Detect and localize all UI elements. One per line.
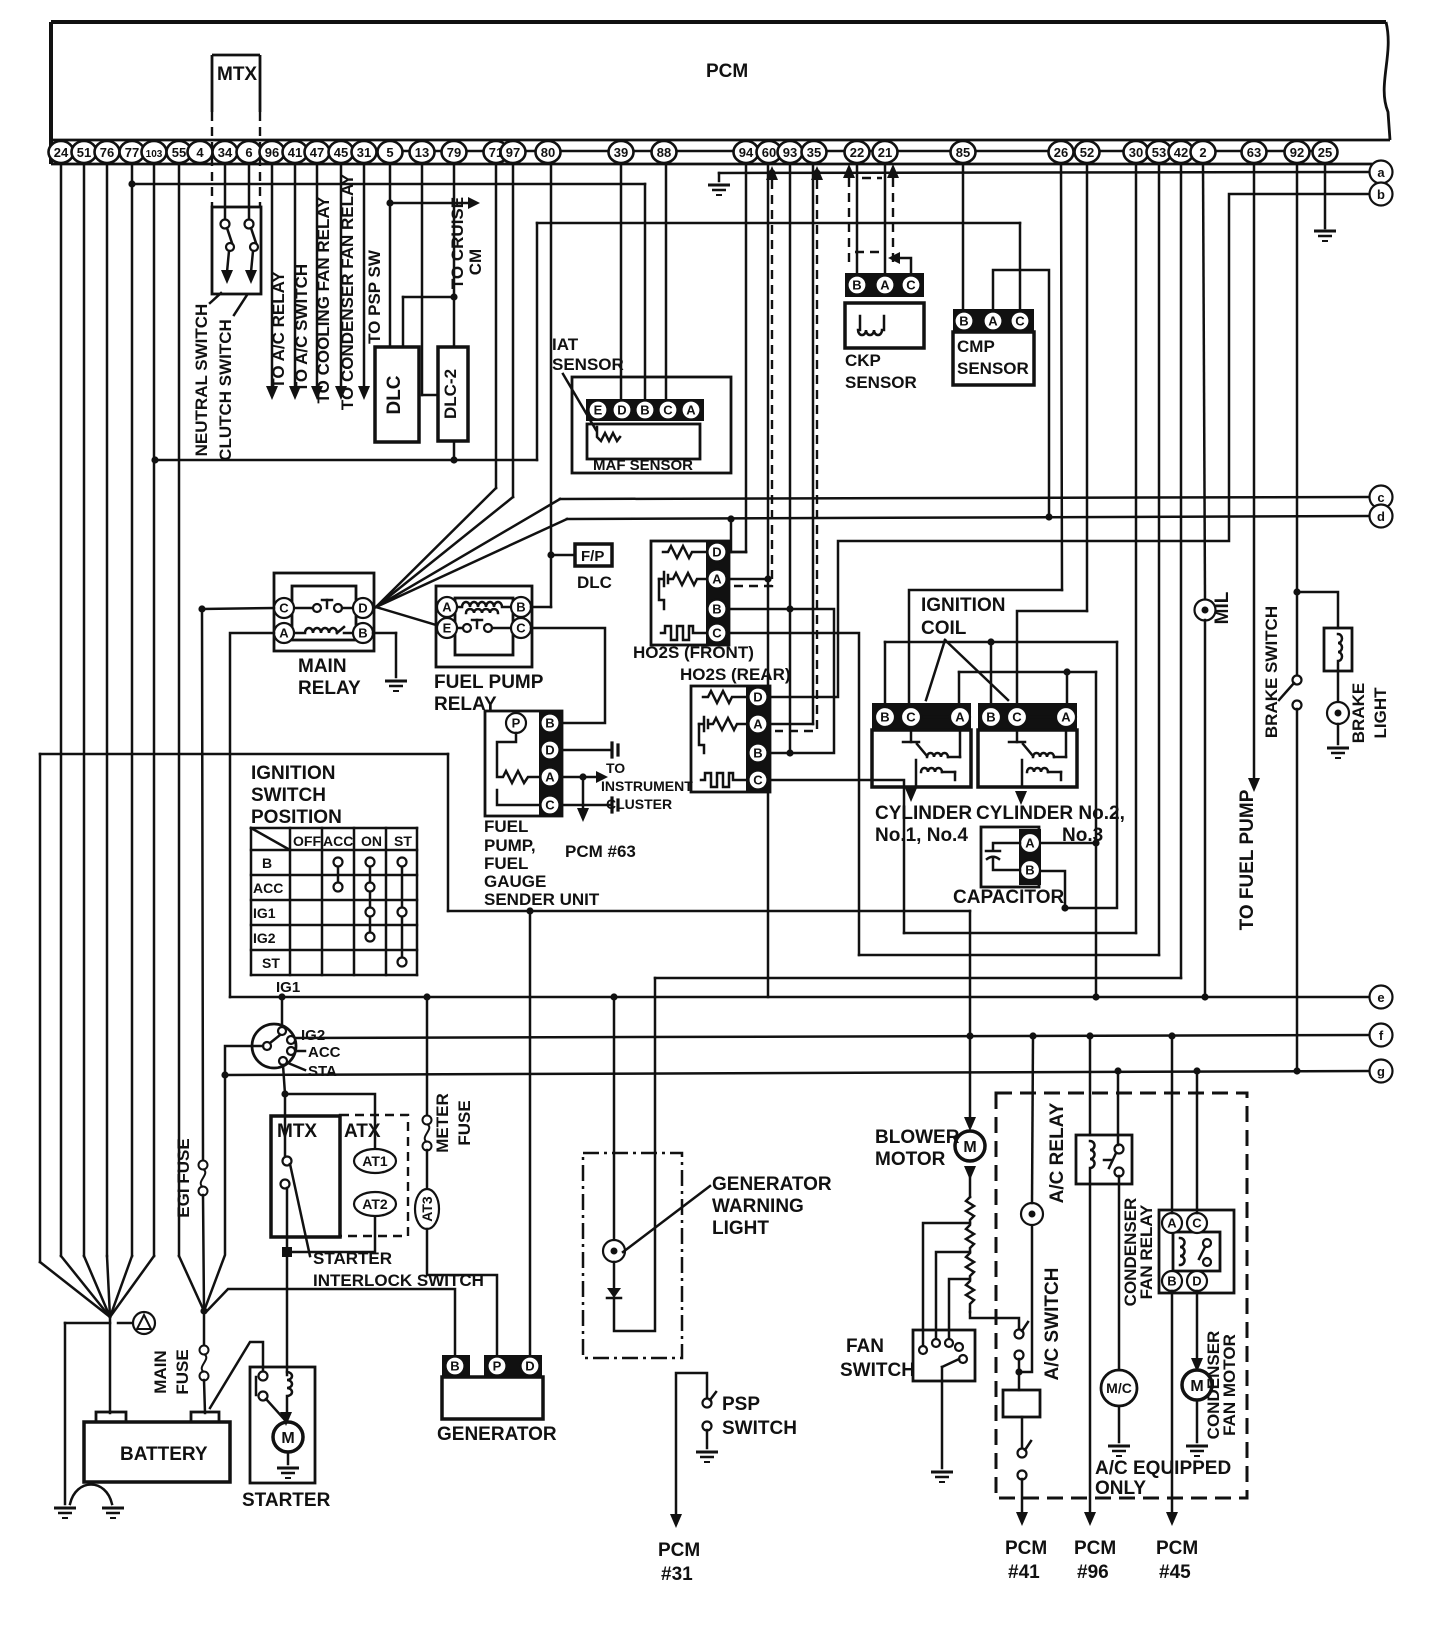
- svg-text:STARTER: STARTER: [242, 1490, 331, 1511]
- wire rail g STA: [225, 1071, 1369, 1075]
- HO2S rear connector band: [746, 686, 770, 792]
- ignition switch: [252, 1024, 296, 1068]
- svg-text:AT2: AT2: [362, 1196, 388, 1212]
- IAT leader: [563, 374, 596, 430]
- svg-text:D: D: [712, 545, 721, 560]
- MAF pin E: [589, 401, 608, 420]
- CKP pin C: [902, 276, 921, 295]
- generator warning bulb: [603, 1240, 625, 1262]
- wire pin wire x=317: [316, 164, 319, 388]
- svg-text:A: A: [1025, 836, 1035, 851]
- wire diode loop: [614, 978, 655, 1331]
- PCM pin 88: [652, 141, 677, 163]
- wire ac relay contact riser: [1117, 1071, 1120, 1145]
- junction rear B tap: [786, 749, 793, 756]
- thermo box: [1003, 1390, 1040, 1417]
- condenser fan relay box: [1159, 1210, 1234, 1293]
- PCM31 arrow: [670, 1514, 682, 1528]
- svg-text:B: B: [852, 278, 861, 293]
- junction IG1 tap: [278, 993, 285, 1000]
- HO2S rear pin C: [749, 771, 768, 790]
- wire pin93 wire: [789, 164, 792, 753]
- svg-text:A: A: [686, 403, 696, 418]
- HO2S rear A shield: [775, 180, 817, 731]
- svg-text:ACC: ACC: [308, 1044, 341, 1061]
- MAF connector band: [586, 399, 704, 421]
- MTX box at PCM top: [212, 55, 260, 207]
- fuel pump relay pin E: [437, 618, 457, 638]
- wire pcm45 wire: [1171, 1291, 1174, 1514]
- coil 1 internals: [903, 730, 960, 787]
- svg-text:22: 22: [850, 145, 864, 160]
- ignition coil unit 1 connector: [872, 703, 971, 730]
- neutral switch: [221, 220, 235, 273]
- ground strap ground: [102, 1508, 124, 1518]
- svg-text:C: C: [753, 773, 763, 788]
- svg-text:SENDER UNIT: SENDER UNIT: [484, 890, 600, 909]
- junction ac relay f tap: [1086, 1032, 1093, 1039]
- fuel pump relay coil: [457, 602, 511, 613]
- wire pin71 wire: [495, 164, 498, 488]
- svg-text:A: A: [1061, 710, 1071, 725]
- svg-text:FUEL PUMP: FUEL PUMP: [434, 672, 544, 693]
- svg-text:DLC: DLC: [577, 573, 612, 592]
- pcm41 arrow: [1016, 1512, 1028, 1526]
- wire generator B feed: [206, 1289, 455, 1355]
- ground pin25 ground: [1314, 231, 1336, 241]
- svg-text:PUMP,: PUMP,: [484, 836, 536, 855]
- svg-text:FAN MOTOR: FAN MOTOR: [1220, 1334, 1239, 1436]
- wire FP relay B out: [531, 606, 551, 609]
- wire pin35 wire: [812, 164, 815, 724]
- wire PCM63 drop: [582, 777, 585, 810]
- HO2S front connector band: [706, 541, 729, 645]
- CMP pin B: [955, 312, 974, 331]
- wire blower to resistors: [969, 1172, 972, 1197]
- svg-text:IG2: IG2: [253, 930, 276, 946]
- svg-text:PCM: PCM: [706, 61, 748, 82]
- svg-text:30: 30: [1129, 145, 1143, 160]
- svg-text:TO FUEL PUMP: TO FUEL PUMP: [1237, 789, 1258, 930]
- PCM pin 94: [734, 141, 759, 163]
- MIL bulb: [1195, 600, 1216, 621]
- svg-text:C: C: [1192, 1216, 1202, 1231]
- svg-text:CYLINDER No.2,: CYLINDER No.2,: [976, 803, 1125, 824]
- junction blower f tap: [966, 1032, 973, 1039]
- wire pressure link: [1019, 1226, 1032, 1372]
- wire pin92 wire upper: [1296, 164, 1299, 676]
- svg-text:SWITCH: SWITCH: [251, 785, 326, 806]
- wire cruise line: [390, 202, 470, 205]
- wire main relay C feed: [202, 608, 274, 609]
- svg-text:31: 31: [357, 145, 371, 160]
- svg-text:IAT: IAT: [552, 335, 579, 354]
- terminal d: [1370, 505, 1393, 528]
- PCM pin 80: [536, 141, 561, 163]
- ground main relay ground: [385, 681, 407, 691]
- svg-text:63: 63: [1247, 145, 1261, 160]
- wire A rail to cap: [1095, 672, 1098, 843]
- wire battery neg lead: [109, 1317, 112, 1413]
- svg-text:92: 92: [1290, 145, 1304, 160]
- DLC connector: [375, 347, 419, 442]
- svg-text:M: M: [1190, 1378, 1203, 1395]
- wire A1 riser: [958, 672, 961, 703]
- MAF pin B: [636, 401, 655, 420]
- wire DLC-2 bottom lead: [453, 441, 456, 460]
- PCM pin 53: [1147, 141, 1172, 163]
- HO2S rear box: [691, 686, 770, 792]
- svg-text:COIL: COIL: [921, 618, 967, 639]
- starter motor: [273, 1422, 303, 1452]
- svg-text:A/C EQUIPPED: A/C EQUIPPED: [1095, 1458, 1231, 1479]
- svg-text:A/C SWITCH: A/C SWITCH: [1042, 1268, 1063, 1381]
- wire pin55 wire: [178, 164, 181, 1256]
- wire mc gnd lead: [1118, 1406, 1121, 1442]
- PCM63 arrow: [577, 808, 589, 822]
- wire cond motor wire: [1196, 1291, 1199, 1363]
- svg-text:ST: ST: [394, 833, 412, 849]
- wire pin 24 fan diagonal: [61, 1256, 110, 1317]
- svg-text:PCM: PCM: [1156, 1538, 1198, 1559]
- PCM pin 96: [260, 141, 285, 163]
- svg-text:PCM: PCM: [1005, 1538, 1047, 1559]
- svg-text:SENSOR: SENSOR: [845, 373, 917, 392]
- svg-text:85: 85: [956, 145, 970, 160]
- svg-text:a: a: [1377, 165, 1385, 180]
- svg-text:FUSE: FUSE: [173, 1349, 192, 1394]
- arrow x=341: [335, 386, 347, 400]
- wire main fuse to battery: [204, 1380, 205, 1413]
- wire B1 riser: [884, 642, 887, 703]
- svg-text:C: C: [712, 626, 722, 641]
- wire pin 76 fan diagonal: [107, 1256, 110, 1317]
- svg-text:MIL: MIL: [1212, 591, 1233, 624]
- junction brake g tap: [1293, 1067, 1300, 1074]
- noise suppressor: [118, 1312, 155, 1334]
- HO2S rear pin B: [749, 744, 768, 763]
- svg-text:FAN: FAN: [846, 1336, 884, 1357]
- cond motor arrow: [1191, 1358, 1203, 1372]
- svg-text:A: A: [988, 314, 998, 329]
- pcm45 arrow: [1166, 1512, 1178, 1526]
- svg-text:AT3: AT3: [419, 1196, 435, 1222]
- svg-text:B: B: [1025, 863, 1034, 878]
- wire pin 103 ground drop: [153, 164, 156, 1256]
- PCM box outline: [51, 22, 1390, 164]
- PCM pin 2: [1191, 141, 1216, 163]
- svg-text:26: 26: [1054, 145, 1068, 160]
- terminal e: [1370, 986, 1393, 1009]
- svg-text:TO A/C SWITCH: TO A/C SWITCH: [292, 264, 311, 392]
- PCM pin 4: [188, 141, 213, 163]
- junction HO2S front A tap: [764, 575, 771, 582]
- svg-text:SENSOR: SENSOR: [552, 355, 624, 374]
- ground battery neg ground: [54, 1508, 76, 1518]
- svg-text:B: B: [450, 1359, 459, 1374]
- svg-text:A: A: [1167, 1216, 1177, 1231]
- svg-text:AT1: AT1: [362, 1153, 388, 1169]
- svg-text:53: 53: [1152, 145, 1166, 160]
- wire pin53 wire: [1158, 164, 1161, 955]
- wire battery to starter diag: [210, 1342, 263, 1408]
- svg-text:52: 52: [1080, 145, 1094, 160]
- junction DLC branch tap: [450, 293, 457, 300]
- blower bottom arrow: [964, 1166, 976, 1180]
- wire HO2S front D lead: [729, 551, 746, 554]
- svg-text:77: 77: [125, 145, 139, 160]
- svg-text:4: 4: [196, 145, 204, 160]
- svg-text:60: 60: [762, 145, 776, 160]
- starter contacts: [256, 1372, 284, 1420]
- PCM pin 21: [873, 141, 898, 163]
- svg-text:ON: ON: [361, 833, 382, 849]
- wire rail e IG1: [230, 996, 1369, 999]
- wire pcm96 wire: [1089, 1184, 1092, 1514]
- svg-text:A: A: [753, 717, 763, 732]
- wire pressure to f: [1032, 1036, 1033, 1203]
- wire main relay A wire: [230, 633, 274, 997]
- fuel pump pin C: [541, 796, 560, 815]
- wire pin53 rail: [859, 954, 1159, 957]
- wire ground-box left drop: [39, 754, 42, 1262]
- wire pin wire x=341: [340, 164, 343, 388]
- svg-text:MTX: MTX: [277, 1121, 317, 1142]
- svg-text:SWITCH: SWITCH: [722, 1418, 797, 1439]
- AT2: [354, 1192, 396, 1216]
- CMP pin C: [1011, 312, 1030, 331]
- capacitor box: [981, 827, 1039, 887]
- svg-text:35: 35: [807, 145, 821, 160]
- wire bulb to diode: [613, 1262, 616, 1288]
- svg-text:NEUTRAL SWITCH: NEUTRAL SWITCH: [192, 304, 211, 457]
- PCM pin 63: [1242, 141, 1267, 163]
- pin31 arrow: [358, 386, 370, 400]
- fuel pump arrow: [1248, 778, 1260, 792]
- ignition coil unit 2 connector: [978, 703, 1077, 730]
- wire EGI wire lower: [203, 1195, 204, 1311]
- wire pin2 wire upper: [1203, 164, 1205, 600]
- wire blower riser: [969, 911, 972, 1122]
- CKP pin B: [848, 276, 867, 295]
- junction capA node: [1092, 839, 1099, 846]
- junction d rail tap: [727, 515, 734, 522]
- DLC-2 connector: [438, 347, 468, 441]
- pin row tie line: [402, 150, 1313, 153]
- fuel pump pin P: [506, 713, 526, 733]
- wire AT2 link: [292, 1215, 375, 1252]
- wire pin26 wire: [1061, 164, 1062, 590]
- svg-text:#41: #41: [1008, 1562, 1040, 1583]
- svg-text:b: b: [1377, 187, 1385, 202]
- wire ac relay coil riser: [1089, 1036, 1092, 1135]
- neutral switch leader: [210, 293, 221, 303]
- fuel pump pin A: [541, 768, 560, 787]
- wire pin39 wire: [620, 164, 623, 400]
- svg-text:PSP: PSP: [722, 1394, 760, 1415]
- cruise arrow: [468, 197, 480, 209]
- A out arrow: [596, 771, 608, 783]
- svg-text:97: 97: [506, 145, 520, 160]
- starter box: [250, 1367, 315, 1483]
- wire ignition common drop: [204, 1046, 263, 1311]
- MAF pin A: [682, 401, 701, 420]
- junction brake branch tap: [1293, 588, 1300, 595]
- wire pin2 wire lower: [1204, 620, 1207, 997]
- svg-text:ATX: ATX: [344, 1121, 381, 1142]
- MTX box: [271, 1116, 340, 1237]
- wire cap A link: [1040, 842, 1096, 845]
- A/C relay coil: [1090, 1141, 1095, 1184]
- svg-text:5: 5: [386, 145, 393, 160]
- PCM pin 92: [1285, 141, 1310, 163]
- wire pin30 rail: [904, 932, 1136, 935]
- refrigerant pressure switch: [1021, 1203, 1043, 1225]
- wire EGI wire upper: [202, 609, 203, 1161]
- wire sensor ground rail: [155, 459, 537, 462]
- svg-text:IG1: IG1: [253, 905, 276, 921]
- junction sensor gnd rail tap: [450, 456, 457, 463]
- svg-text:d: d: [1377, 509, 1385, 524]
- wire ground box right edge: [447, 754, 450, 911]
- svg-text:B: B: [880, 710, 889, 725]
- wire rail d: [567, 516, 1369, 519]
- junction cond f tap: [1168, 1032, 1175, 1039]
- svg-text:B: B: [545, 716, 554, 731]
- PCM pin 6: [237, 141, 262, 163]
- wire pin26 jog: [909, 590, 1062, 703]
- starter interlock switch: [281, 1157, 311, 1257]
- terminal a: [1370, 161, 1393, 184]
- svg-text:IG1: IG1: [276, 979, 300, 996]
- ATX dashed box: [340, 1115, 408, 1236]
- svg-text:M: M: [963, 1139, 976, 1156]
- wire pin 77 ground drop: [131, 164, 134, 1256]
- wire rail b: [770, 194, 1369, 697]
- svg-text:TO: TO: [606, 760, 625, 776]
- wire pin 51 ground drop: [83, 164, 86, 1256]
- wire FP relay C out: [531, 628, 605, 723]
- wire MAF B drop: [644, 184, 647, 400]
- wire pin94 wire: [745, 164, 748, 552]
- svg-text:6: 6: [245, 145, 252, 160]
- wire pin31 wire: [363, 164, 366, 388]
- ignition coil unit 1 body: [872, 730, 971, 787]
- svg-text:MAIN: MAIN: [298, 656, 347, 677]
- svg-text:FUEL: FUEL: [484, 817, 528, 836]
- HO2S front pin D: [708, 543, 727, 562]
- blower motor: [955, 1131, 985, 1161]
- wire d drop to HO2S D: [730, 519, 733, 552]
- svg-text:C: C: [279, 601, 289, 616]
- wire pin wire x=295: [294, 164, 297, 388]
- svg-text:POSITION: POSITION: [251, 807, 342, 828]
- svg-text:FAN RELAY: FAN RELAY: [1137, 1204, 1156, 1299]
- inline connector D: [612, 743, 618, 757]
- front shield arrow: [766, 166, 778, 180]
- wire starter motor gnd lead: [287, 1452, 290, 1464]
- wire pin 76 ground drop: [106, 164, 109, 1256]
- wire main relay B gnd drop: [395, 633, 398, 677]
- svg-text:OFF: OFF: [293, 833, 321, 849]
- low speed switch: [1018, 1441, 1032, 1480]
- wire DLC branch: [403, 296, 454, 299]
- svg-text:C: C: [906, 278, 916, 293]
- wire rail pin42: [655, 977, 1181, 980]
- PCM pin 5: [378, 141, 403, 163]
- svg-text:FUSE: FUSE: [455, 1100, 474, 1145]
- terminal f: [1370, 1024, 1393, 1047]
- PCM pin 85: [951, 141, 976, 163]
- fuel pump relay contact: [457, 620, 511, 632]
- MAF pin C: [659, 401, 678, 420]
- wire pin52 wire: [1086, 164, 1089, 611]
- AT1: [354, 1149, 396, 1173]
- svg-text:CMP: CMP: [957, 337, 995, 356]
- wire brake light branch: [1297, 592, 1338, 628]
- wire cond C riser: [1196, 1071, 1199, 1213]
- junction FP DLC tap: [547, 551, 554, 558]
- junction pressure f tap: [1029, 1032, 1036, 1039]
- svg-text:STA: STA: [308, 1063, 337, 1080]
- svg-text:94: 94: [739, 145, 754, 160]
- A/C equipped only dashed box: [996, 1093, 1247, 1498]
- svg-text:D: D: [525, 1359, 534, 1374]
- CKP connector: [845, 273, 924, 297]
- svg-text:TO PSP SW: TO PSP SW: [365, 249, 384, 344]
- wire pin52 jog: [1017, 611, 1087, 703]
- AT3: [415, 1189, 439, 1229]
- CMP body: [953, 332, 1034, 385]
- condenser fan motor: [1182, 1370, 1212, 1400]
- svg-text:c: c: [1377, 490, 1384, 505]
- svg-text:D: D: [358, 601, 367, 616]
- junction PCM63 tap: [579, 773, 586, 780]
- svg-text:A/C RELAY: A/C RELAY: [1047, 1102, 1068, 1203]
- wire A2 riser: [1066, 672, 1069, 703]
- A/C relay contacts: [1104, 1145, 1124, 1177]
- wire pin5 wire: [389, 164, 392, 347]
- PCM pin 31: [352, 141, 377, 163]
- wire pin60 wire: [767, 164, 770, 997]
- pcm96 arrow: [1084, 1512, 1096, 1526]
- wire mc wire: [1118, 1176, 1121, 1370]
- switch enclosure box: [212, 207, 261, 294]
- HO2S front A shield: [733, 180, 772, 586]
- junction front B tap: [786, 605, 793, 612]
- svg-text:103: 103: [146, 149, 163, 160]
- wire CMP A wire: [993, 270, 1049, 517]
- generator connector B: [442, 1355, 470, 1377]
- CMP pin A: [984, 312, 1003, 331]
- svg-text:TO CRUISE: TO CRUISE: [448, 197, 467, 289]
- wire pin 77 fan diagonal: [110, 1256, 132, 1317]
- main relay pin C: [274, 598, 294, 618]
- wire neg ground drop: [64, 1323, 67, 1504]
- svg-text:MOTOR: MOTOR: [875, 1149, 946, 1170]
- wire main relay B out: [373, 632, 396, 635]
- wire pin13 wire: [421, 164, 424, 395]
- svg-text:CYLINDER: CYLINDER: [875, 803, 972, 824]
- svg-text:C: C: [663, 403, 673, 418]
- svg-text:41: 41: [288, 145, 302, 160]
- diode: [607, 1288, 621, 1298]
- svg-text:STARTER: STARTER: [313, 1249, 392, 1268]
- svg-text:C: C: [906, 710, 916, 725]
- junction EGI line tap: [198, 605, 205, 612]
- fuel pump relay pin B: [511, 597, 531, 617]
- svg-text:CKP: CKP: [845, 351, 881, 370]
